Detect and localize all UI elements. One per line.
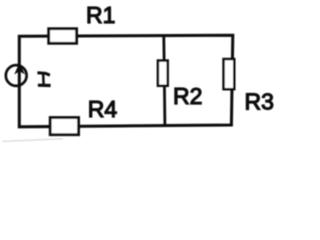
svg-text:R4: R4 [88,96,118,122]
svg-text:R2: R2 [173,83,202,109]
svg-text:R1: R1 [86,2,115,28]
svg-text:R3: R3 [245,89,274,115]
